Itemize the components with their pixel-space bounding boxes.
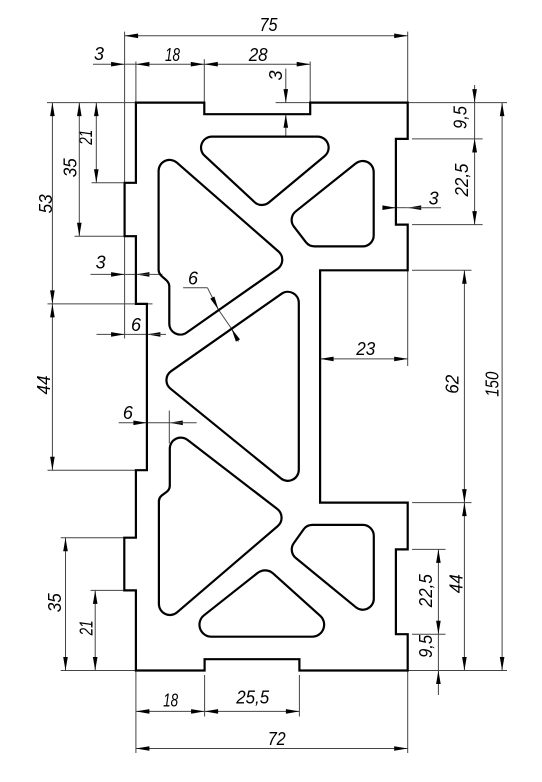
svg-text:62: 62: [443, 375, 463, 394]
cutout G bottom-middle triangular hole: [199, 570, 324, 636]
dimension 3 (top recess depth, rotated): [266, 69, 288, 138]
extension line right at y=224.6 (22,5 dim): [412, 224, 483, 226]
extension line right at y=549.4 (22,5 dim): [412, 548, 446, 550]
dimension 28 (top recess width): [204, 45, 310, 66]
svg-text:6: 6: [123, 403, 134, 423]
svg-text:3: 3: [429, 188, 439, 208]
dimension 62 (right pocket height): [443, 270, 467, 502]
extension line right at y=634.2 (22,5/9,5 dims): [412, 633, 446, 635]
dimension 9,5 (top-right): [451, 85, 477, 152]
svg-text:6: 6: [188, 269, 199, 289]
dimension 9,5 (bottom-right): [416, 634, 441, 695]
cutout A top-middle triangular hole: [201, 137, 329, 205]
svg-text:18: 18: [163, 690, 178, 710]
svg-text:28: 28: [248, 45, 268, 65]
cutout C upper-left large triangular hole: [159, 160, 283, 335]
extension line vertical x=407.7 bottom (72 dim): [407, 671, 409, 754]
dimension 35 (bottom-left): [45, 538, 68, 671]
svg-text:6: 6: [131, 315, 142, 335]
extension line right at y=138.9 (9,5/22,5 dims): [412, 138, 483, 140]
extension line left at y=236.2 (35 dim): [75, 235, 136, 237]
svg-text:53: 53: [36, 194, 56, 213]
svg-text:3: 3: [94, 44, 104, 64]
extension line left at y=182.8 (21 dim): [92, 182, 125, 184]
extension line vertical x=135.9 (3/18 dims): [135, 62, 137, 103]
dimension 18 (bottom): [136, 690, 205, 713]
cutout D center triangular hole: [166, 292, 298, 481]
svg-text:150: 150: [483, 372, 503, 397]
svg-text:44: 44: [447, 574, 467, 593]
extension line vertical x=310.2 (28 dim): [309, 62, 311, 115]
svg-text:25,5: 25,5: [235, 688, 270, 708]
svg-text:21: 21: [76, 620, 96, 636]
dimension 44 (left): [34, 304, 55, 470]
dimension 6 (diagonal web thickness): [183, 269, 240, 342]
extension line vertical x=299.4 (25,5 dim): [298, 675, 300, 717]
svg-text:18: 18: [165, 45, 180, 65]
extension line vertical x=169.3 (6 dim): [168, 411, 170, 444]
extension line right at bottom edge level (44/150 dims): [408, 670, 507, 672]
dimension 3 (right notch depth): [382, 188, 441, 210]
dimension 6 (left wall thickness): [119, 403, 197, 425]
extension line vertical x=407.7 (23 dim): [407, 270, 409, 366]
svg-text:75: 75: [260, 15, 279, 35]
svg-text:3: 3: [96, 253, 106, 273]
dimension 44 (bottom-right): [447, 503, 467, 671]
extension line left at top edge level: [47, 102, 136, 104]
extension line vertical x=407.7 top (75 dim): [407, 32, 409, 103]
extension line left at y=537.7 (35 dim): [61, 537, 127, 539]
dimension 35 (top-left): [60, 103, 81, 237]
dimension 3 (left tab depth): [91, 253, 163, 277]
extension line right at top edge level (9,5/150 dims): [408, 102, 507, 104]
cutout B top-right hole: [292, 161, 374, 246]
extension line left at y=590.4 (21 dim): [91, 589, 136, 591]
dimension 25,5 (bottom recess width): [205, 688, 300, 714]
svg-text:22,5: 22,5: [416, 573, 436, 608]
dimension 21 (bottom-left): [76, 590, 97, 670]
part outline (plate profile): [124, 103, 407, 671]
extension line right at y=270.3 (62 dim): [412, 269, 472, 271]
extension line vertical x=204.6 (18/25,5 dims): [204, 675, 206, 717]
dimension 53 (left): [36, 103, 56, 304]
extension line right at y=502.6 (62/44 dims): [412, 502, 472, 504]
cutout E lower-left large triangular hole: [159, 438, 282, 615]
svg-text:72: 72: [268, 729, 286, 749]
extension line vertical x=124.6 (75/3/6 dims): [124, 32, 126, 339]
dimension 23 (right pocket depth): [320, 339, 408, 361]
svg-text:23: 23: [355, 339, 375, 359]
extension line vertical x=135.9 bottom (18/72 dims): [135, 671, 137, 754]
svg-text:9,5: 9,5: [451, 105, 471, 129]
svg-text:3: 3: [266, 71, 286, 81]
dimension 75 (overall width, top): [125, 15, 408, 38]
extension line left at bottom edge level: [61, 670, 136, 672]
svg-text:44: 44: [34, 376, 54, 395]
extension line vertical x=204.3 (18/28 dims): [203, 59, 205, 114]
dimension 72 (bottom overall width): [136, 729, 408, 751]
extension line left at y=303.9 (53/44 dims): [48, 303, 153, 305]
cutout F bottom-right hole: [292, 525, 374, 610]
dimension 22,5 (bottom-right notch): [416, 549, 441, 634]
svg-text:9,5: 9,5: [416, 634, 436, 658]
dimension 18 (top): [136, 45, 204, 66]
dimension 150 (overall height): [483, 103, 505, 671]
svg-text:22,5: 22,5: [452, 163, 472, 198]
svg-text:35: 35: [45, 592, 65, 612]
extension line over top recess: [276, 102, 311, 104]
dimension 6 (left step): [97, 315, 167, 337]
dimension 22,5 (top-right notch): [452, 139, 477, 225]
svg-text:35: 35: [60, 157, 80, 177]
dimension 21 (top-left): [76, 103, 99, 183]
dimension 3 (top-left corner offset): [93, 44, 136, 67]
extension line left at y=470.2 (44 dim): [48, 469, 147, 471]
